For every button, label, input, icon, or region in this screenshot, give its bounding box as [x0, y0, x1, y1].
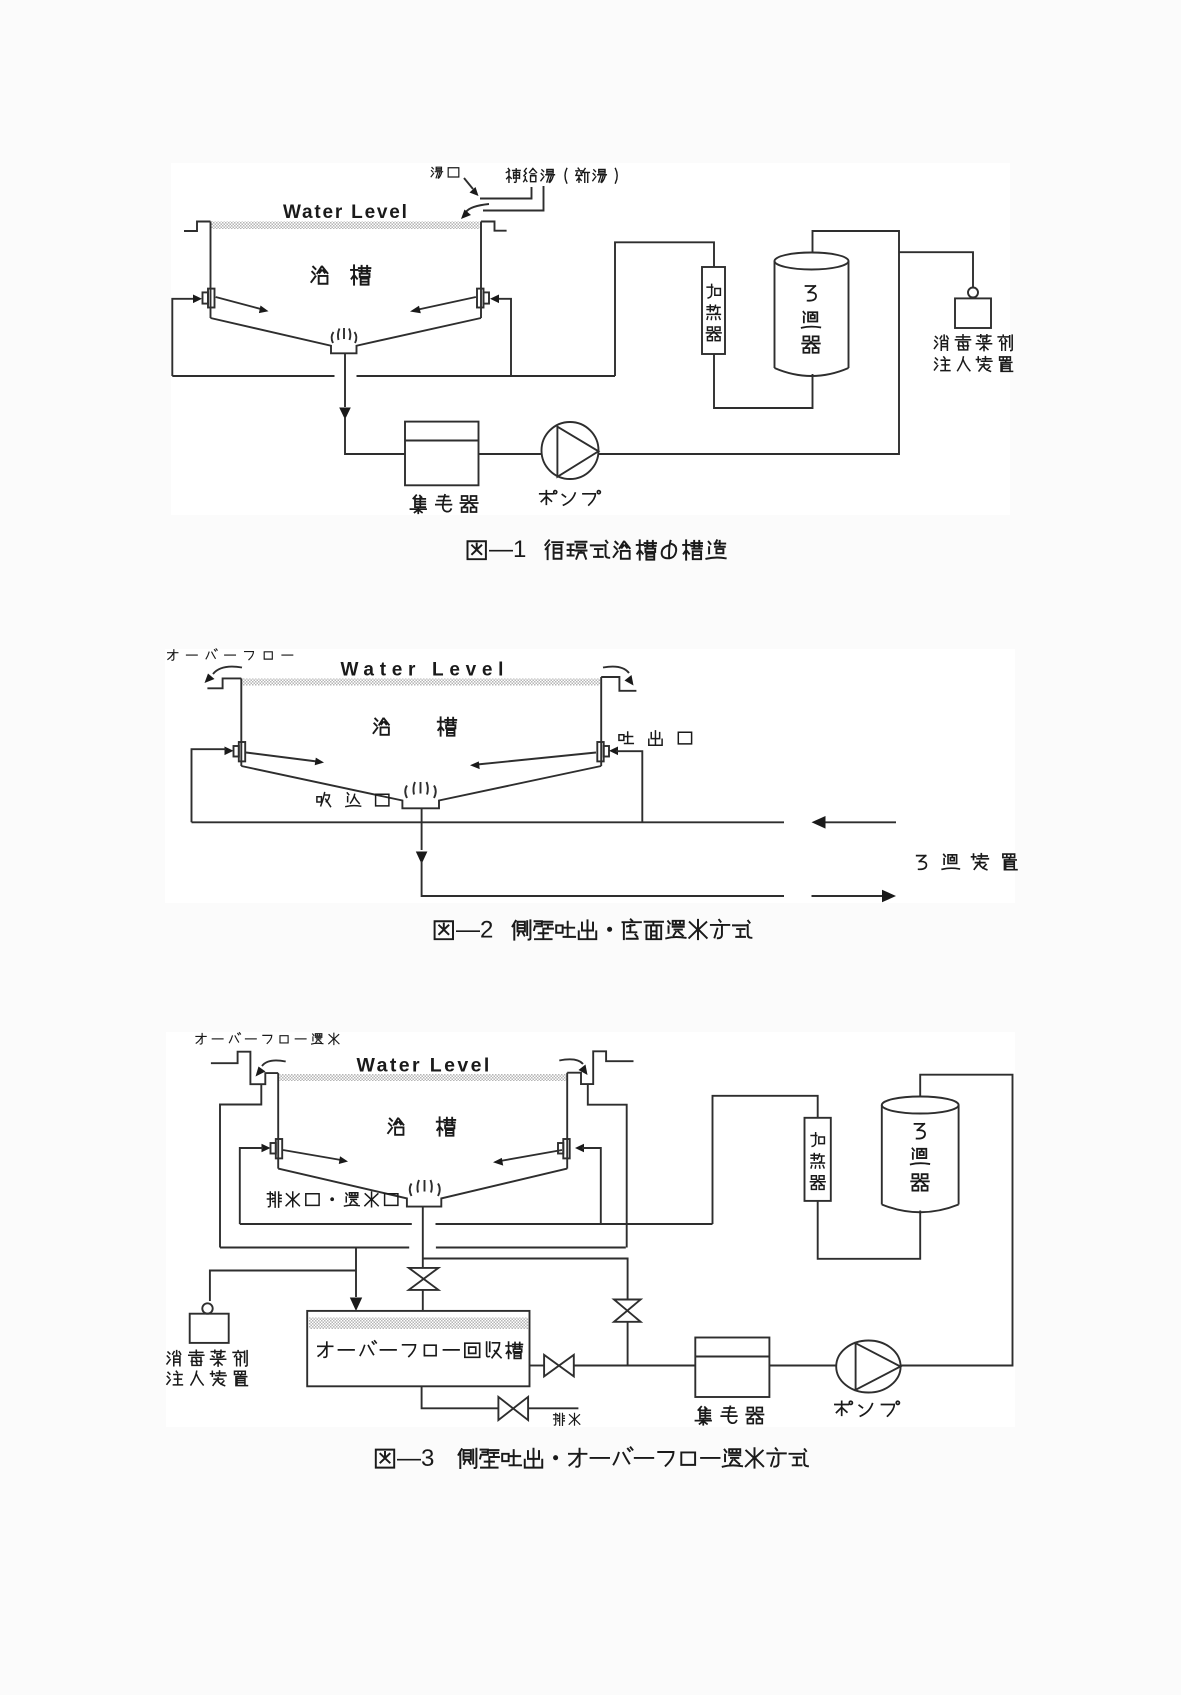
left gutter drain to outer duct	[220, 1084, 261, 1247]
tank bottom drain to waste valve V4	[422, 1386, 499, 1408]
overflow recovery tank オーバーフロー回収槽	[307, 1311, 529, 1386]
figure 2 image panel	[165, 649, 1015, 903]
bypass tap line to valve V2 riser	[423, 1259, 628, 1300]
left jet feed pipe	[240, 1148, 263, 1224]
bath tub sloped floor and center drain cup	[211, 318, 482, 353]
make-up water supply pipe (double line)	[480, 187, 532, 199]
svg-text:Water Level: Water Level	[357, 1055, 492, 1077]
right jet flow arrow into tub	[416, 297, 476, 310]
heater top pipe joining jet supply bus	[713, 1096, 818, 1224]
svg-text:—2: —2	[456, 917, 493, 944]
disinfectant injector box 消毒薬剤注入装置	[955, 298, 991, 328]
left overflow gutter	[211, 1052, 278, 1085]
right jet nozzle	[563, 1139, 569, 1158]
drain pipe from tub to hair catcher	[344, 353, 346, 407]
drain return line	[421, 808, 423, 850]
figure 3 image panel	[166, 1032, 1015, 1427]
left supply pipe with arrow	[172, 299, 195, 376]
label 吸込口 (suction port)	[317, 793, 331, 807]
svg-text:—3: —3	[397, 1445, 434, 1472]
label 消毒薬剤	[167, 1351, 181, 1366]
svg-text:—1: —1	[489, 536, 526, 563]
tub drain pipe to valve V1	[422, 1207, 424, 1268]
right gutter drain to outer duct	[588, 1084, 627, 1247]
hair catcher 集毛器 box	[695, 1338, 769, 1398]
bath tub left rim	[184, 222, 211, 232]
hair catcher 集毛器 box	[405, 422, 479, 486]
bath tub sloped floor with drain cup	[241, 766, 601, 808]
bath tub right rim with curved arrow	[601, 677, 636, 691]
water level band	[212, 222, 480, 230]
label 排水 (waste)	[554, 1413, 565, 1425]
valve V1 (vertical gate valve)	[409, 1268, 439, 1290]
bath tub left wall	[277, 1073, 279, 1169]
riser from heater to manifold	[615, 242, 714, 376]
jet supply manifold	[172, 375, 334, 377]
tank outlet line to hair catcher	[530, 1365, 545, 1367]
pipe hair catcher to pump	[769, 1365, 836, 1367]
filter ろ過器 cylinder	[775, 253, 849, 270]
filter ろ過器 cylinder	[882, 1097, 959, 1114]
left jet nozzle	[225, 747, 234, 756]
drain splash marks	[405, 782, 436, 798]
water level band	[243, 679, 601, 686]
left jet flow arrow into tub	[283, 1150, 341, 1160]
bath tub right wall	[566, 1073, 568, 1169]
drain splash marks	[332, 328, 357, 343]
bath tub left wall	[240, 678, 242, 766]
valve V4 (horizontal waste valve)	[498, 1397, 528, 1420]
label ろ過器 (vertical)	[915, 1124, 926, 1139]
right jet feed pipe and standpipe	[616, 751, 642, 822]
heater 加熱器 box	[805, 1118, 831, 1201]
curved arrow into right gutter	[559, 1059, 583, 1064]
heater bottom pipe to filter bottom	[818, 1201, 921, 1259]
label 集毛器	[695, 1407, 711, 1425]
arrow pointing left (from filter unit)	[824, 821, 896, 823]
label 排水口・還水口	[267, 1192, 281, 1207]
caption 図—3 側壁吐出・オーバーフロー還水方式	[360, 1440, 830, 1480]
arrow from 湯口 to pipe	[464, 178, 473, 189]
disinfectant tap line	[210, 1271, 356, 1302]
curved arrow into left gutter	[262, 1060, 286, 1066]
pipe hair catcher to pump	[479, 453, 542, 455]
label ポンプ	[835, 1401, 853, 1415]
label 補給湯（新湯） make-up hot water	[506, 168, 520, 182]
heater bottom pipe to filter bottom	[714, 354, 813, 408]
pump circle with triangle	[836, 1341, 900, 1393]
label 注入装置	[167, 1371, 182, 1385]
outer collection duct bottom	[220, 1247, 409, 1249]
caption 図—2 側壁吐出・底面還水方式	[420, 912, 780, 952]
left jet flow arrow into tub	[216, 297, 262, 309]
figure 1 image panel	[171, 163, 1010, 515]
pump discharge riser to filter	[901, 1075, 1013, 1366]
bath tub right wall	[480, 222, 482, 319]
disinfectant injector box	[190, 1314, 229, 1343]
drop line from duct into recovery tank with arrow	[355, 1248, 357, 1298]
label ろ過器 (vertical)	[806, 286, 817, 301]
valve V2 (vertical gate valve)	[614, 1300, 641, 1322]
right supply pipe with arrow	[497, 299, 511, 376]
water level band	[280, 1074, 567, 1081]
upper return line to filter unit	[192, 821, 785, 823]
label 加熱器 (vertical)	[811, 1133, 824, 1147]
right jet nozzle	[477, 289, 484, 308]
left jet nozzle	[203, 292, 209, 303]
label 浴槽	[388, 1119, 403, 1135]
bath tub left rim (overflow lip)	[207, 678, 241, 688]
heater 加熱器 box	[702, 267, 725, 354]
label 集毛器	[410, 495, 426, 513]
bath tub sloped floor with drain cup	[278, 1169, 567, 1207]
label 浴槽 (bath tub)	[311, 267, 327, 284]
left jet feed pipe	[192, 749, 227, 822]
label ポンプ	[540, 491, 557, 505]
injector valve circle	[968, 288, 978, 298]
label 注入装置	[934, 357, 949, 371]
drain splash marks	[410, 1180, 440, 1196]
left jet flow arrow into tub	[246, 753, 317, 762]
caption 図—1 循環式浴槽の構造	[450, 530, 750, 570]
curved pour arrow into tub	[466, 204, 489, 212]
right jet feed pipe	[582, 1148, 601, 1224]
pump circle with triangle	[542, 422, 599, 479]
bath tub right wall	[600, 677, 602, 766]
svg-text:Water Level: Water Level	[283, 202, 409, 223]
right jet nozzle (吐出口)	[597, 742, 603, 761]
bath tub left wall	[210, 222, 212, 319]
label オーバーフロー回収槽	[318, 1342, 333, 1357]
svg-text:Water Level: Water Level	[341, 660, 510, 681]
valve V3 (horizontal valve)	[544, 1355, 574, 1377]
left jet nozzle	[262, 1144, 271, 1153]
label 吐出口 (discharge port)	[619, 732, 633, 744]
label ろ過装置 (filter unit)	[917, 856, 927, 870]
right jet flow arrow into tub	[477, 753, 596, 765]
arrow pointing right (to filter unit)	[812, 895, 884, 897]
disinfectant injector pipe	[899, 252, 973, 287]
pump discharge line and riser to filter	[599, 231, 900, 454]
jet supply bus line	[240, 1223, 412, 1225]
bath tub right rim	[481, 222, 507, 231]
label 消毒薬剤	[934, 335, 948, 350]
right overflow gutter	[567, 1051, 633, 1084]
label オーバーフロー (overflow)	[168, 650, 178, 661]
label 浴槽	[373, 719, 388, 735]
label オーバーフロー還水	[196, 1033, 206, 1044]
label 湯口 (inlet)	[431, 167, 442, 178]
label 加熱器 (vertical)	[707, 284, 720, 298]
curved overflow arrow into left rim	[213, 667, 242, 674]
injector valve circle	[202, 1303, 212, 1313]
right jet flow arrow into tub	[500, 1150, 562, 1161]
